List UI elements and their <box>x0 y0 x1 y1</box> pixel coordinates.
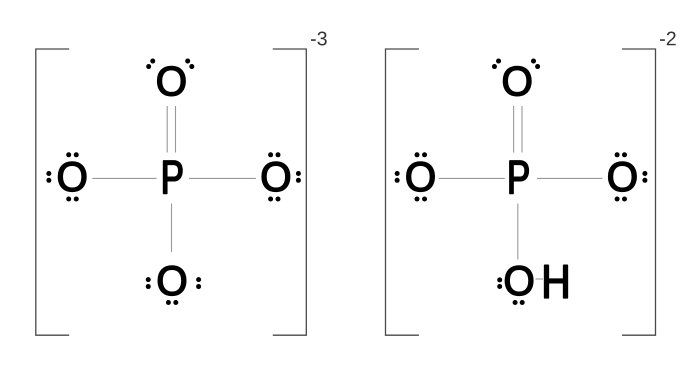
lone pair left of left O struct 2 <box>395 171 400 183</box>
bracket left of phosphate ion <box>36 49 69 335</box>
single bond P-O right <box>189 177 256 179</box>
lone pair upper-left of top O struct 2 <box>492 59 501 70</box>
lone pair above left O <box>66 152 79 157</box>
atom O right struct 2 <box>609 162 636 191</box>
lone pair left of bottom O <box>146 277 151 289</box>
atom P center of hydrogen phosphate <box>510 161 528 194</box>
lone pair below right O struct 2 <box>615 197 627 202</box>
single bond P-O bottom <box>171 204 173 253</box>
single bond O-H <box>536 278 544 280</box>
lone pair above right O struct 2 <box>615 152 627 157</box>
atom O right <box>262 162 289 191</box>
lone pair upper-left of top O <box>146 59 155 70</box>
lone pair above left O struct 2 <box>415 152 428 157</box>
lone pair left of left O <box>46 171 51 183</box>
atom O left <box>58 162 85 191</box>
single bond P-O right struct 2 <box>537 177 602 179</box>
atom O bottom <box>158 266 185 295</box>
lone pair right of bottom O <box>196 277 201 289</box>
lone pair above right O <box>268 152 280 157</box>
charge label -2 <box>660 32 676 46</box>
atom H of hydroxyl group <box>545 265 568 298</box>
lone pair below bottom O <box>166 300 178 305</box>
double bond P=O line 1 struct 2 <box>513 106 515 153</box>
double bond P=O line 1 <box>166 106 168 153</box>
double bond P=O line 2 <box>175 106 177 153</box>
atom O of hydroxyl group <box>505 266 532 295</box>
double bond P=O line 2 struct 2 <box>521 106 523 153</box>
single bond P-O bottom struct 2 <box>517 204 519 260</box>
lone pair left of hydroxyl O <box>497 277 502 289</box>
lone pair upper-right of top O <box>185 59 194 70</box>
lone pair right of right O <box>296 171 301 183</box>
atom P center of phosphate <box>164 161 182 194</box>
lone pair below left O struct 2 <box>415 197 428 202</box>
charge label -3 <box>311 32 327 46</box>
single bond P-O left struct 2 <box>439 177 505 179</box>
lone pair below left O <box>66 197 79 202</box>
atom O left struct 2 <box>407 162 434 191</box>
atom O top double-bonded <box>158 66 185 95</box>
bracket right of phosphate ion <box>273 49 307 335</box>
atom O top double-bonded struct 2 <box>503 66 530 95</box>
bracket right of hydrogen phosphate ion <box>622 49 656 335</box>
lone pair below hydroxyl O <box>513 300 525 305</box>
lone pair right of right O struct 2 <box>642 171 647 183</box>
lone pair upper-right of top O struct 2 <box>531 59 540 70</box>
bracket left of hydrogen phosphate ion <box>386 49 419 335</box>
single bond P-O left <box>92 177 156 179</box>
lone pair below right O <box>268 197 280 202</box>
